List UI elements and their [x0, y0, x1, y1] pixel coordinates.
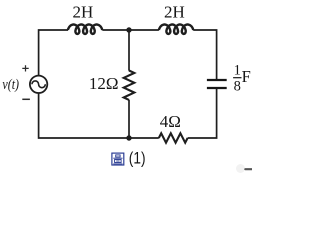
junction node B dot [126, 135, 131, 140]
svg-text:F: F [242, 67, 251, 86]
capacitor C1 bottom plate [207, 87, 227, 89]
wire: R2 to bottom-right corner, right rail lower [188, 89, 217, 138]
source V1 circle [30, 76, 47, 93]
svg-text:8: 8 [234, 78, 241, 94]
junction node A dot [126, 27, 131, 32]
svg-text:v(t): v(t) [2, 76, 19, 92]
wire middle branch lower: R1 down to node B [128, 100, 130, 138]
capacitor C1 top plate [207, 79, 227, 81]
wire: left rail lower, source to bottom-left corner, to R2 [39, 93, 159, 138]
wire: top-left corner, L1 to left rail upper [39, 30, 68, 76]
label C1 fraction bar [233, 77, 241, 79]
resistor R2 4ohm zigzag [159, 133, 188, 142]
source V1 sine wave [32, 81, 45, 88]
svg-text:12Ω: 12Ω [89, 74, 119, 93]
svg-text:2H: 2H [164, 3, 185, 22]
wire middle branch upper: node A down to R1 [128, 30, 130, 71]
inductor L2 coil (2H) [159, 25, 193, 34]
svg-text:1: 1 [234, 63, 241, 79]
caption figure glyph box (CJK tu) [112, 153, 124, 165]
inductor L1 coil (2H) [68, 25, 102, 34]
source polarity minus [22, 98, 30, 100]
svg-text:(1): (1) [129, 149, 146, 167]
stray pencil mark at bottom-right edge [236, 164, 253, 173]
wire: L2 to top-right corner, right rail upper [193, 30, 216, 79]
svg-text:4Ω: 4Ω [160, 112, 181, 131]
source polarity plus [22, 65, 28, 71]
svg-text:2H: 2H [73, 3, 94, 22]
resistor R1 12ohm zigzag [124, 71, 135, 100]
wire top-middle: L1 to L2 through node A [102, 29, 159, 31]
